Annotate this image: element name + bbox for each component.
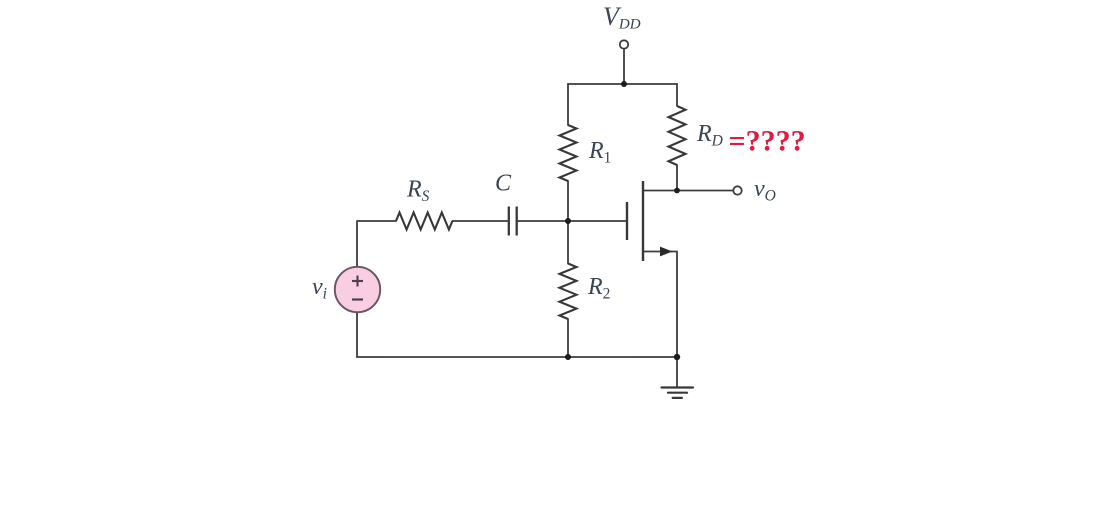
output terminal vO bbox=[733, 186, 741, 194]
svg-text:R1: R1 bbox=[588, 138, 611, 167]
source lead bbox=[643, 251, 677, 253]
gate bar bbox=[626, 202, 628, 240]
node VDD rail junction bbox=[621, 81, 627, 87]
wire bottom rail bbox=[357, 356, 677, 358]
svg-text:vi: vi bbox=[312, 274, 327, 303]
resistor R1 bbox=[560, 125, 577, 181]
source arrow bbox=[660, 247, 673, 257]
wire left bottom bbox=[356, 313, 358, 358]
wire top rail bbox=[568, 83, 677, 85]
node bottom left junction bbox=[565, 354, 571, 360]
wire ground stub bbox=[676, 357, 678, 387]
ground bbox=[662, 388, 694, 398]
svg-text:C: C bbox=[495, 171, 512, 197]
transistor M1 bbox=[627, 181, 677, 261]
capacitor C bbox=[509, 207, 517, 236]
drain lead bbox=[643, 190, 677, 192]
voltage source vi bbox=[335, 267, 380, 312]
wire gate bbox=[568, 220, 626, 222]
wire left top bbox=[357, 221, 396, 267]
wire VDD stub bbox=[623, 49, 625, 84]
svg-text:RS: RS bbox=[406, 177, 430, 206]
wire C to node bbox=[518, 220, 568, 222]
wire RD bottom lead bbox=[676, 165, 678, 191]
node A (gate/divider junction) bbox=[565, 218, 571, 224]
wire RS to C bbox=[452, 220, 507, 222]
channel bar bbox=[642, 181, 644, 261]
svg-text:=????: =???? bbox=[729, 125, 806, 158]
node bottom right junction bbox=[674, 354, 680, 360]
wire RD top lead bbox=[676, 84, 678, 106]
svg-text:vO: vO bbox=[754, 176, 776, 205]
svg-text:RD: RD bbox=[696, 121, 723, 150]
wire output bbox=[677, 190, 733, 192]
wire R2 top lead bbox=[567, 221, 569, 264]
node drain/output junction bbox=[674, 188, 680, 194]
VDD terminal bbox=[620, 40, 628, 48]
resistor RD bbox=[669, 106, 686, 165]
wire source down bbox=[676, 252, 678, 358]
resistor R2 bbox=[560, 264, 577, 320]
svg-text:R2: R2 bbox=[587, 274, 610, 303]
svg-text:VDD: VDD bbox=[603, 2, 641, 33]
wire R2 bottom lead bbox=[567, 319, 569, 357]
wire R1 top lead bbox=[567, 84, 569, 125]
wire R1 bottom lead bbox=[567, 181, 569, 221]
resistor RS bbox=[396, 213, 452, 230]
